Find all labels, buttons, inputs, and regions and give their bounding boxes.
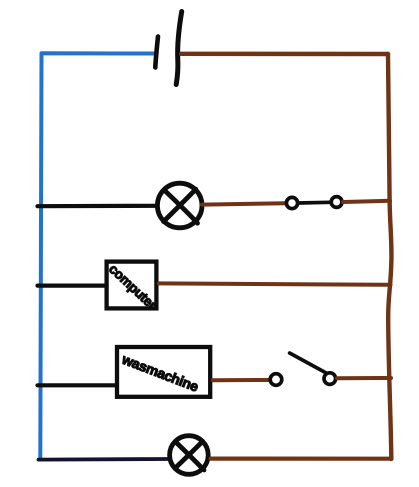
wire brown row3 (wasmachine to switch S2) (213, 378, 269, 382)
wasmachine box (117, 347, 210, 397)
battery positive plate (long) (176, 12, 182, 85)
svg-text:wasmachine: wasmachine (119, 351, 201, 395)
lamp L1 (circle with X) (157, 183, 202, 228)
wire brown row4 (lamp 2 to bottom-right corner) (211, 457, 392, 461)
wire brown row1 (lamp 1 to switch S1) (202, 203, 286, 204)
wire black row3 (blue wire to wasmachine) (38, 383, 117, 387)
switch S1 terminal circle left (286, 197, 297, 208)
lamp L2 (circle with X) (170, 436, 209, 475)
wire brown row2 (computer to right rail) (159, 283, 391, 284)
switch S2 terminal circle left (270, 374, 282, 386)
wire black row1 (blue wire to lamp 1) (38, 204, 156, 209)
label "computer" (106, 261, 160, 313)
computer box (107, 262, 157, 309)
battery negative plate (short) (155, 37, 158, 68)
wire brown row1 right (switch S1 to right rail) (343, 201, 390, 202)
svg-text:computer: computer (106, 261, 160, 313)
wire brown top (battery to top-right corner) (181, 52, 388, 57)
switch S2 open lever (290, 353, 328, 374)
label "wasmachine" (119, 351, 201, 395)
wire brown row3 right (switch S2 to right rail) (337, 376, 391, 380)
wire blue left loop (top horizontal + left vertical) (40, 53, 156, 458)
wire brown right vertical (388, 54, 391, 459)
wire dark bottom left (blue wire to lamp 2) (39, 457, 168, 461)
wire black row2 (blue wire to computer) (38, 284, 105, 288)
switch S2 terminal circle right (324, 373, 336, 385)
switch S1 terminal circle right (331, 197, 342, 208)
switch S1 closed bar (299, 200, 331, 204)
